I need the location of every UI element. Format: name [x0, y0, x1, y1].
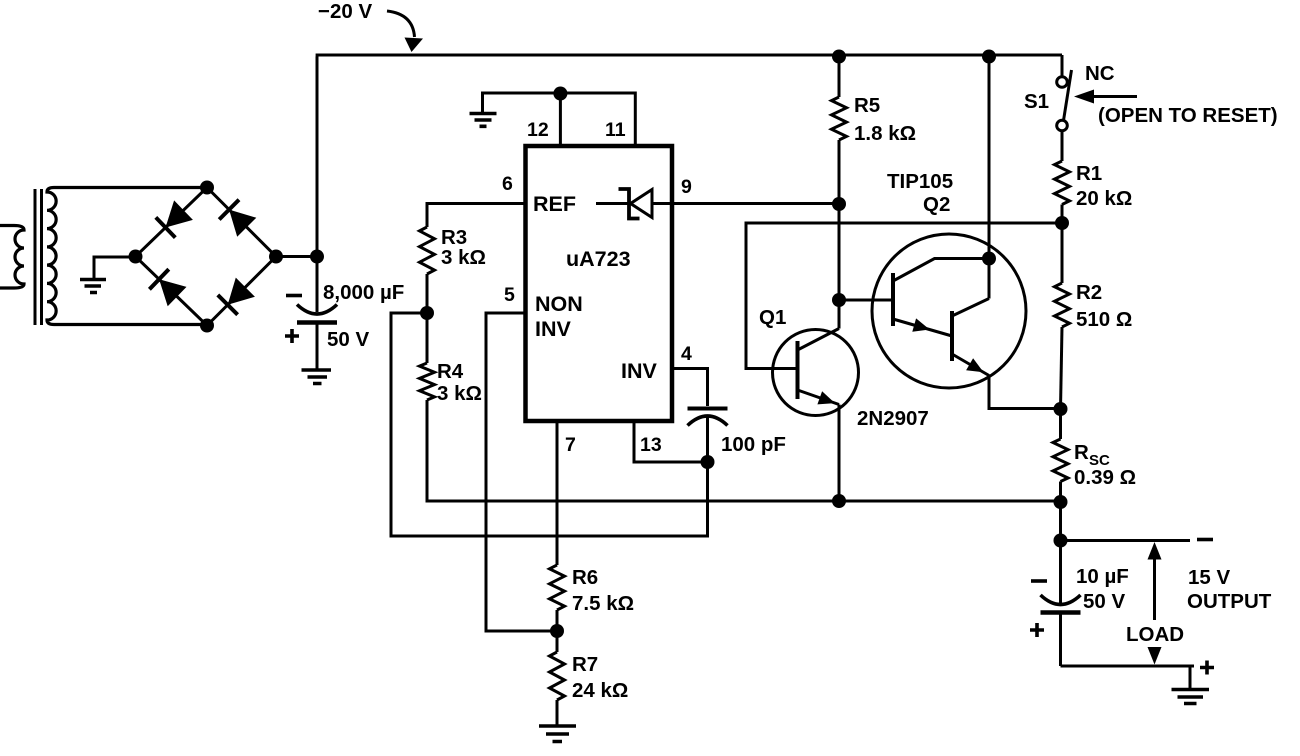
label TIP105 — [887, 170, 953, 193]
svg-text:NON: NON — [535, 292, 583, 316]
wire R3R4 node to 100pF junction (left loop) — [391, 313, 708, 536]
load arrows — [1148, 542, 1162, 665]
svg-text:10 µF: 10 µF — [1076, 565, 1129, 588]
transformer secondary winding — [47, 188, 207, 325]
svg-text:510 Ω: 510 Ω — [1076, 308, 1132, 331]
node output — [1054, 534, 1068, 548]
label R6 value — [572, 592, 634, 615]
label INV (non-inverting) — [535, 317, 572, 341]
node Q1 collector / Q2 base — [832, 293, 846, 307]
svg-text:R6: R6 — [572, 566, 598, 589]
node bridge right — [269, 250, 283, 264]
node rail-R5 — [832, 50, 846, 64]
svg-text:R5: R5 — [854, 94, 880, 117]
label 50 V output cap — [1083, 590, 1125, 613]
node 100pF junction — [701, 455, 715, 469]
label pin 7 — [565, 434, 576, 456]
svg-text:Q1: Q1 — [759, 306, 786, 329]
svg-text:7: 7 — [565, 434, 576, 456]
label R2 value — [1076, 308, 1132, 331]
label 10 uF — [1076, 565, 1129, 588]
node R3-R4 junction — [420, 306, 434, 320]
node sense long wire junction — [832, 494, 846, 508]
svg-text:uA723: uA723 — [566, 247, 631, 271]
label 2N2907 — [857, 407, 929, 430]
svg-text:0.39 Ω: 0.39 Ω — [1074, 466, 1136, 489]
label R7 — [572, 653, 598, 676]
label S1 — [1024, 90, 1049, 113]
wire R4 bottom to output sense (long horizontal) — [427, 400, 1061, 501]
wire -20V rail — [316, 55, 1062, 257]
transistor Q2 TIP105 darlington — [872, 234, 1061, 409]
resistor R6 — [550, 565, 565, 631]
wire rail to Q2 collector — [988, 55, 991, 259]
resistor R5 — [832, 55, 847, 204]
svg-text:REF: REF — [533, 192, 576, 216]
node filter cap top — [310, 250, 324, 264]
wire bridge left node to ground — [94, 257, 136, 279]
IC U1 uA723 box — [526, 146, 673, 421]
svg-text:20 kΩ: 20 kΩ — [1076, 187, 1132, 210]
label minus 8000uF — [286, 294, 302, 298]
svg-text:−20 V: −20 V — [318, 0, 372, 23]
svg-text:INV: INV — [621, 359, 658, 383]
wire Q1 base network — [746, 223, 1062, 369]
wire RSC to output node — [1059, 502, 1062, 541]
label pin 13 — [640, 434, 662, 456]
wire bridge right node to filter cap node — [276, 255, 317, 258]
wire Q2 base — [839, 299, 893, 302]
wire pin 6 to R3 — [427, 204, 526, 228]
capacitor 10 uF — [1041, 541, 1081, 667]
wire pin 13 to 100pF junction — [634, 421, 708, 462]
label OUTPUT — [1187, 590, 1272, 613]
wire output bottom — [1061, 665, 1195, 668]
label R4 — [437, 360, 464, 383]
node RSC-sense — [1054, 495, 1068, 509]
bridge diode bottom-right — [218, 278, 255, 315]
resistor R7 — [550, 631, 565, 725]
label output minus — [1197, 538, 1213, 542]
svg-text:TIP105: TIP105 — [887, 170, 953, 193]
svg-text:11: 11 — [605, 119, 626, 141]
ground at R7 — [539, 726, 576, 742]
svg-text:100 pF: 100 pF — [721, 433, 786, 456]
node pin9-R5 junction — [832, 197, 846, 211]
bridge diode bottom-left — [149, 269, 186, 306]
label R4 value — [437, 382, 482, 405]
svg-text:R: R — [1074, 441, 1089, 464]
transformer core — [35, 189, 42, 325]
label RSC — [1074, 441, 1110, 469]
wire R5 node to Q2 base node — [838, 204, 841, 300]
resistor R2 — [1055, 223, 1070, 409]
bridge diode top-left — [156, 200, 193, 237]
label Q2 — [923, 193, 950, 216]
label R3 — [441, 226, 467, 249]
svg-text:5: 5 — [504, 284, 515, 306]
node R2-RSC / Q2 emitter — [1054, 402, 1068, 416]
label pin 9 — [681, 176, 692, 198]
capacitor 8,000 uF — [297, 257, 337, 370]
label INV (inverting) — [621, 359, 658, 383]
svg-text:R7: R7 — [572, 653, 598, 676]
svg-text:2N2907: 2N2907 — [857, 407, 929, 430]
wire pin 7 down — [556, 421, 559, 565]
label -20 V — [318, 0, 372, 23]
label RSC value — [1074, 466, 1136, 489]
node bridge top — [200, 181, 214, 195]
svg-text:S1: S1 — [1024, 90, 1049, 113]
label 15 V — [1188, 566, 1230, 589]
label R2 — [1076, 281, 1102, 304]
label OPEN TO RESET — [1098, 104, 1278, 127]
resistor R1 — [1055, 131, 1070, 224]
bridge diode top-right — [219, 200, 256, 237]
svg-text:OUTPUT: OUTPUT — [1187, 590, 1272, 613]
svg-text:24 kΩ: 24 kΩ — [572, 679, 628, 702]
svg-text:7.5 kΩ: 7.5 kΩ — [572, 592, 634, 615]
label pin 6 — [502, 173, 513, 195]
svg-text:15 V: 15 V — [1188, 566, 1230, 589]
label 50 V — [327, 328, 369, 351]
svg-text:R2: R2 — [1076, 281, 1102, 304]
svg-text:R4: R4 — [437, 360, 464, 383]
label pin 11 — [605, 119, 626, 141]
label REF — [533, 192, 576, 216]
label plus bottom right — [1200, 661, 1214, 675]
transistor Q1 2N2907 — [773, 300, 859, 501]
resistor RSC — [1053, 409, 1068, 502]
label R5 — [854, 94, 880, 117]
label pin 4 — [681, 343, 692, 365]
switch S1 — [1057, 55, 1072, 131]
node Q2 collectors — [982, 252, 996, 266]
ground at output — [1172, 666, 1210, 704]
capacitor 100 pF — [688, 409, 728, 463]
resistor R3 — [420, 227, 435, 313]
label 8,000 uF — [323, 281, 404, 304]
label R1 value — [1076, 187, 1132, 210]
svg-text:6: 6 — [502, 173, 513, 195]
wire output top — [1061, 539, 1191, 542]
label minus 10uF — [1031, 579, 1047, 583]
label NON — [535, 292, 583, 316]
svg-text:50 V: 50 V — [327, 328, 369, 351]
label Q1 — [759, 306, 786, 329]
svg-text:(OPEN TO RESET): (OPEN TO RESET) — [1098, 104, 1278, 127]
label uA723 — [566, 247, 631, 271]
wire pin12/pin11 top with ground — [483, 93, 636, 146]
label R5 value — [854, 122, 916, 145]
ground at bridge — [80, 280, 106, 293]
node R1-R2 / Q1 base — [1055, 216, 1069, 230]
svg-text:3 kΩ: 3 kΩ — [437, 382, 482, 405]
svg-text:12: 12 — [527, 119, 549, 141]
node bridge left — [129, 250, 143, 264]
label NC — [1085, 62, 1115, 85]
label R7 value — [572, 679, 628, 702]
zener diode at pin 9 — [619, 189, 653, 219]
node R6-R7 junction — [550, 624, 564, 638]
svg-text:R1: R1 — [1076, 162, 1102, 185]
svg-text:13: 13 — [640, 434, 662, 456]
label plus 8000uF — [285, 329, 299, 343]
wire REF to zener — [596, 202, 629, 205]
svg-text:NC: NC — [1085, 62, 1115, 85]
transformer primary winding — [0, 226, 24, 289]
svg-text:8,000 µF: 8,000 µF — [323, 281, 404, 304]
svg-text:3 kΩ: 3 kΩ — [441, 246, 486, 269]
label pin 12 — [527, 119, 549, 141]
node bridge bottom — [200, 319, 214, 333]
ground at filter cap — [302, 370, 332, 384]
wire pin 5 to R6R7 junction — [486, 313, 557, 631]
svg-text:Q2: Q2 — [923, 193, 950, 216]
wire pin 4 to 100pF — [672, 369, 708, 407]
-20V callout curved arrow — [387, 11, 423, 52]
svg-text:50 V: 50 V — [1083, 590, 1125, 613]
wire pin 9 to R5 node — [652, 202, 839, 205]
label LOAD — [1126, 623, 1184, 646]
ground at IC pin 12 — [470, 114, 497, 127]
label R3 value — [441, 246, 486, 269]
node pin12 ground wire — [553, 87, 567, 101]
svg-text:1.8 kΩ: 1.8 kΩ — [854, 122, 916, 145]
svg-text:INV: INV — [535, 317, 572, 341]
node rail-Q2 — [982, 50, 996, 64]
label 100 pF — [721, 433, 786, 456]
svg-text:4: 4 — [681, 343, 692, 365]
label plus 10uF — [1030, 623, 1044, 637]
label pin 5 — [504, 284, 515, 306]
svg-text:LOAD: LOAD — [1126, 623, 1184, 646]
resistor R4 — [420, 313, 435, 400]
label R1 — [1076, 162, 1102, 185]
svg-text:9: 9 — [681, 176, 692, 198]
label R6 — [572, 566, 598, 589]
bridge rectifier frame wires — [136, 188, 277, 326]
reset arrow — [1074, 90, 1137, 104]
